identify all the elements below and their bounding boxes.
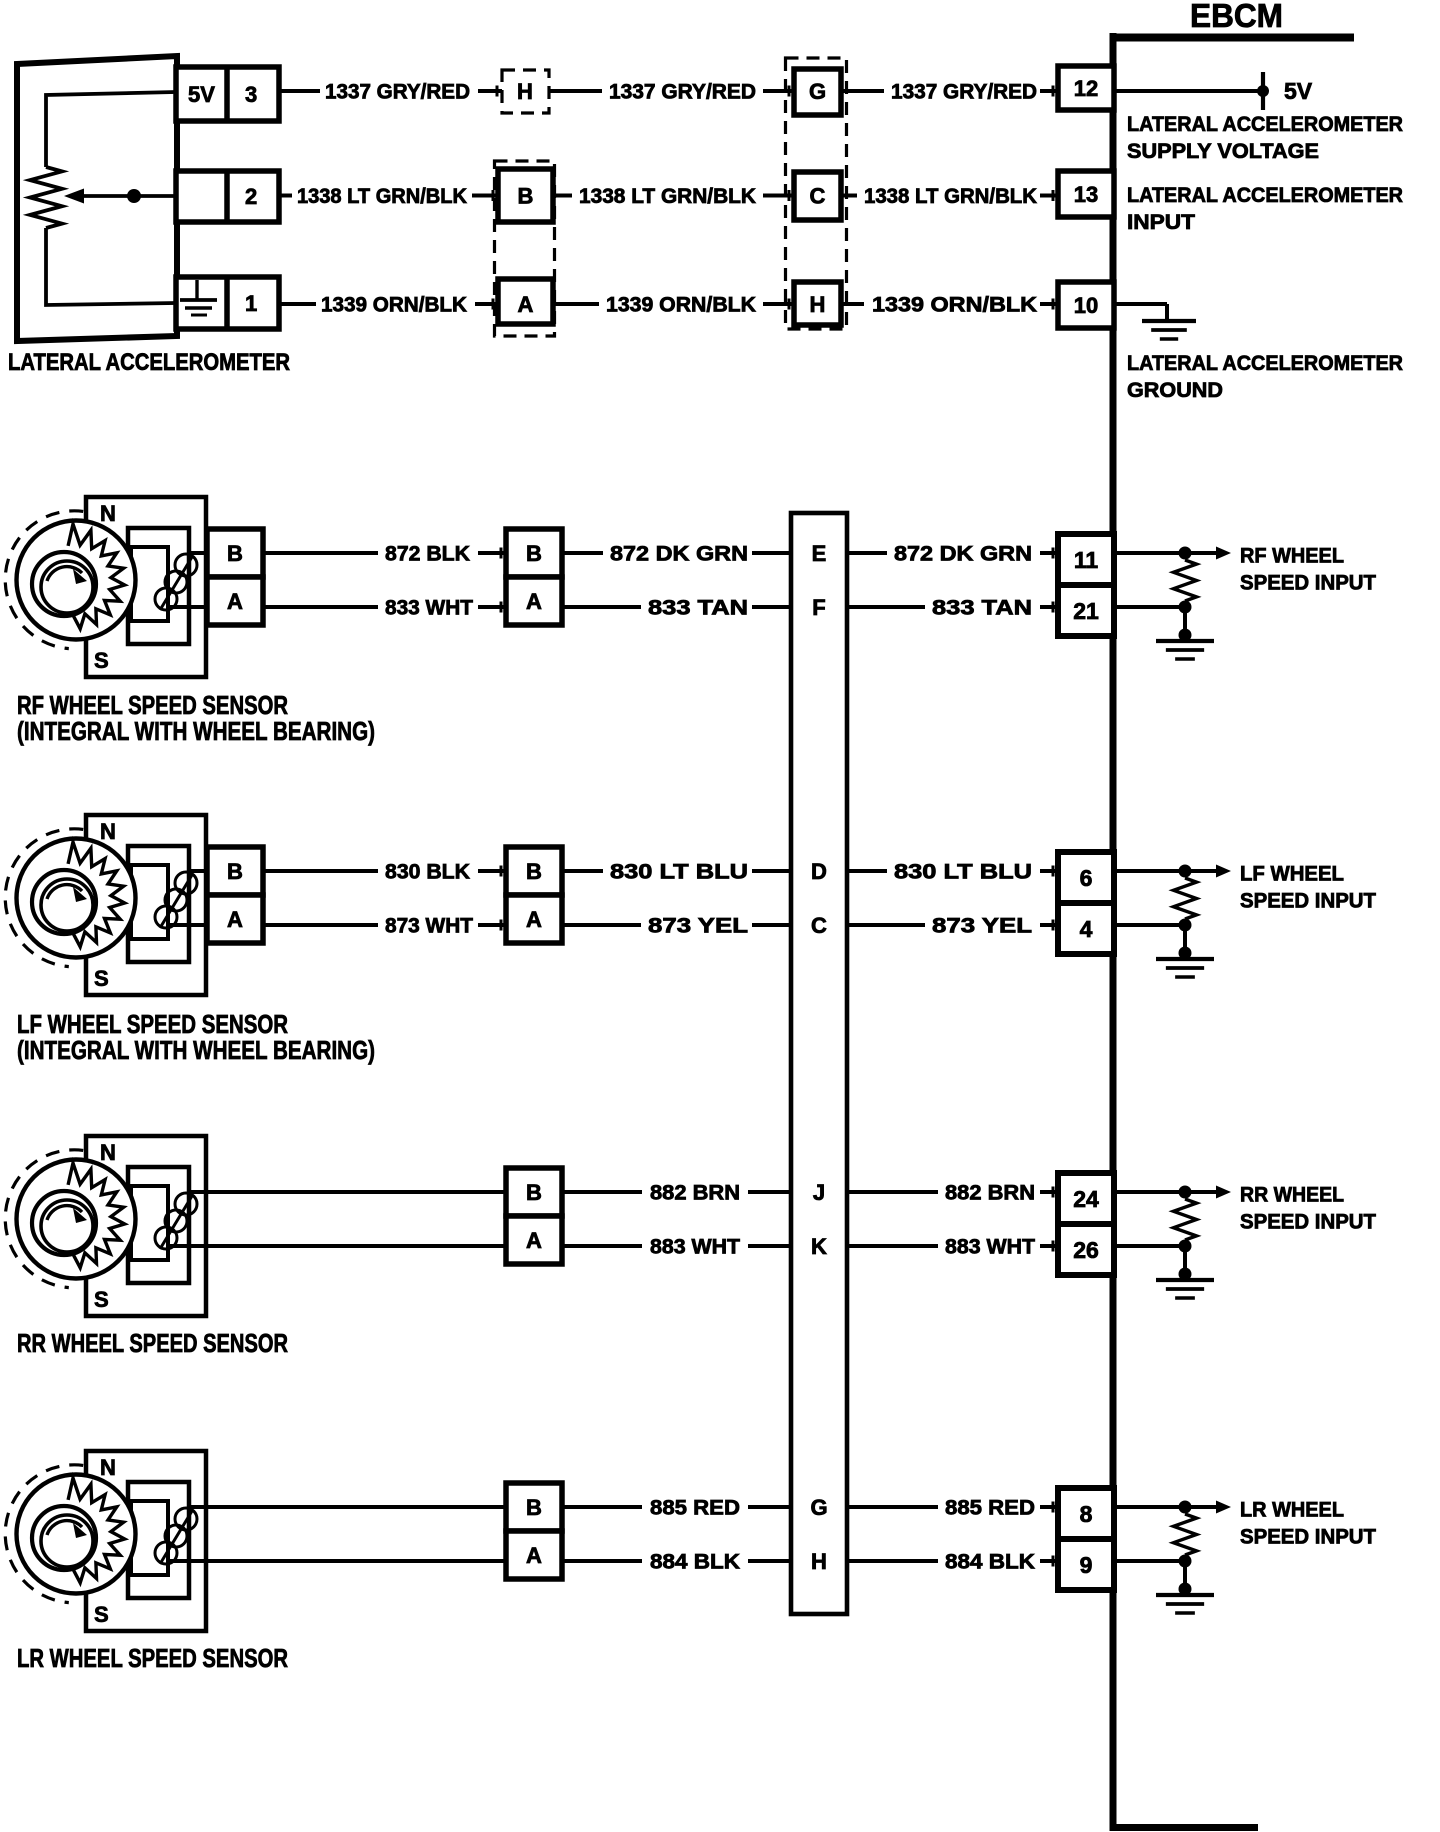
- svg-text:5V: 5V: [1284, 78, 1313, 104]
- svg-text:A: A: [518, 292, 534, 317]
- svg-text:873 WHT: 873 WHT: [385, 915, 473, 938]
- svg-text:A: A: [526, 1228, 542, 1253]
- svg-text:1338 LT GRN/BLK: 1338 LT GRN/BLK: [579, 185, 756, 208]
- svg-text:884 BLK: 884 BLK: [650, 1551, 740, 1574]
- svg-text:883 WHT: 883 WHT: [650, 1236, 740, 1259]
- svg-text:H: H: [811, 1549, 827, 1574]
- svg-text:N: N: [100, 501, 116, 526]
- svg-text:A: A: [526, 1543, 542, 1568]
- svg-text:LATERAL ACCELEROMETER: LATERAL ACCELEROMETER: [8, 349, 290, 376]
- svg-text:B: B: [526, 1180, 542, 1205]
- svg-text:882 BRN: 882 BRN: [945, 1182, 1035, 1205]
- svg-text:882 BRN: 882 BRN: [650, 1182, 740, 1205]
- svg-text:N: N: [100, 819, 116, 844]
- svg-text:830 BLK: 830 BLK: [385, 861, 470, 884]
- svg-text:B: B: [526, 541, 542, 566]
- svg-text:11: 11: [1074, 547, 1099, 573]
- svg-text:SPEED INPUT: SPEED INPUT: [1240, 890, 1376, 913]
- svg-text:G: G: [810, 1495, 827, 1520]
- svg-text:F: F: [812, 595, 825, 620]
- svg-text:E: E: [812, 541, 827, 566]
- svg-text:884 BLK: 884 BLK: [945, 1551, 1035, 1574]
- svg-text:K: K: [811, 1234, 827, 1259]
- svg-text:B: B: [227, 541, 243, 566]
- svg-text:C: C: [810, 184, 826, 209]
- svg-text:EBCM: EBCM: [1190, 0, 1283, 34]
- svg-text:RR WHEEL: RR WHEEL: [1240, 1184, 1344, 1207]
- svg-text:13: 13: [1074, 182, 1098, 207]
- svg-text:A: A: [526, 907, 542, 932]
- svg-text:S: S: [94, 1602, 109, 1627]
- svg-text:24: 24: [1073, 1186, 1099, 1212]
- svg-text:833 TAN: 833 TAN: [648, 597, 748, 620]
- svg-text:1337 GRY/RED: 1337 GRY/RED: [891, 81, 1037, 104]
- svg-text:SUPPLY VOLTAGE: SUPPLY VOLTAGE: [1127, 140, 1319, 163]
- svg-text:N: N: [100, 1140, 116, 1165]
- svg-text:2: 2: [245, 184, 257, 209]
- svg-text:LATERAL ACCELEROMETER: LATERAL ACCELEROMETER: [1127, 184, 1403, 207]
- svg-text:1337 GRY/RED: 1337 GRY/RED: [325, 81, 470, 104]
- svg-text:1339 ORN/BLK: 1339 ORN/BLK: [321, 294, 467, 317]
- svg-text:A: A: [227, 907, 243, 932]
- svg-text:B: B: [518, 184, 534, 209]
- svg-text:LATERAL ACCELEROMETER: LATERAL ACCELEROMETER: [1127, 352, 1403, 375]
- svg-text:S: S: [94, 648, 109, 673]
- svg-text:J: J: [813, 1180, 825, 1205]
- svg-text:21: 21: [1073, 598, 1099, 624]
- svg-text:1337 GRY/RED: 1337 GRY/RED: [609, 81, 756, 104]
- svg-text:GROUND: GROUND: [1127, 379, 1223, 402]
- svg-text:LR WHEEL: LR WHEEL: [1240, 1499, 1344, 1522]
- svg-text:A: A: [526, 589, 542, 614]
- svg-text:S: S: [94, 966, 109, 991]
- svg-text:9: 9: [1080, 1552, 1093, 1578]
- svg-text:10: 10: [1074, 293, 1098, 318]
- svg-text:N: N: [100, 1455, 116, 1480]
- svg-text:H: H: [517, 79, 533, 104]
- svg-text:872 BLK: 872 BLK: [385, 543, 470, 566]
- svg-text:H: H: [810, 292, 826, 317]
- svg-text:873 YEL: 873 YEL: [932, 915, 1032, 938]
- svg-text:A: A: [227, 589, 243, 614]
- svg-text:INPUT: INPUT: [1127, 211, 1195, 234]
- svg-text:833 TAN: 833 TAN: [932, 597, 1032, 620]
- svg-text:LATERAL ACCELEROMETER: LATERAL ACCELEROMETER: [1127, 113, 1403, 136]
- svg-text:873 YEL: 873 YEL: [648, 915, 748, 938]
- svg-text:8: 8: [1080, 1501, 1093, 1527]
- svg-text:B: B: [526, 859, 542, 884]
- svg-text:SPEED INPUT: SPEED INPUT: [1240, 1526, 1376, 1549]
- svg-text:(INTEGRAL WITH WHEEL BEARING): (INTEGRAL WITH WHEEL BEARING): [17, 716, 375, 746]
- svg-text:SPEED INPUT: SPEED INPUT: [1240, 1211, 1376, 1234]
- svg-text:1338 LT GRN/BLK: 1338 LT GRN/BLK: [297, 185, 467, 208]
- svg-text:872 DK GRN: 872 DK GRN: [610, 543, 748, 566]
- svg-text:833 WHT: 833 WHT: [385, 597, 473, 620]
- svg-text:12: 12: [1074, 76, 1098, 101]
- svg-text:885 RED: 885 RED: [650, 1497, 740, 1520]
- svg-text:C: C: [811, 913, 827, 938]
- svg-text:RF WHEEL: RF WHEEL: [1240, 545, 1344, 568]
- svg-text:885 RED: 885 RED: [945, 1497, 1035, 1520]
- svg-text:872 DK GRN: 872 DK GRN: [894, 543, 1032, 566]
- svg-text:1: 1: [245, 291, 257, 316]
- svg-text:G: G: [809, 79, 826, 104]
- svg-text:883 WHT: 883 WHT: [945, 1236, 1035, 1259]
- svg-text:D: D: [811, 859, 827, 884]
- svg-text:1339 ORN/BLK: 1339 ORN/BLK: [872, 294, 1037, 317]
- svg-text:4: 4: [1080, 916, 1093, 942]
- svg-text:LF WHEEL: LF WHEEL: [1240, 863, 1344, 886]
- svg-text:6: 6: [1080, 865, 1093, 891]
- svg-text:(INTEGRAL WITH WHEEL BEARING): (INTEGRAL WITH WHEEL BEARING): [17, 1035, 375, 1065]
- svg-text:RR WHEEL SPEED SENSOR: RR WHEEL SPEED SENSOR: [17, 1328, 288, 1358]
- svg-text:S: S: [94, 1287, 109, 1312]
- svg-text:3: 3: [245, 82, 257, 107]
- svg-text:LR WHEEL SPEED SENSOR: LR WHEEL SPEED SENSOR: [17, 1643, 288, 1673]
- svg-text:1339 ORN/BLK: 1339 ORN/BLK: [606, 294, 756, 317]
- svg-text:1338 LT GRN/BLK: 1338 LT GRN/BLK: [864, 185, 1037, 208]
- svg-text:26: 26: [1073, 1237, 1099, 1263]
- svg-text:B: B: [227, 859, 243, 884]
- svg-text:830 LT BLU: 830 LT BLU: [894, 861, 1032, 884]
- svg-text:B: B: [526, 1495, 542, 1520]
- svg-text:5V: 5V: [188, 82, 215, 107]
- svg-text:SPEED INPUT: SPEED INPUT: [1240, 572, 1376, 595]
- svg-text:830 LT BLU: 830 LT BLU: [610, 861, 748, 884]
